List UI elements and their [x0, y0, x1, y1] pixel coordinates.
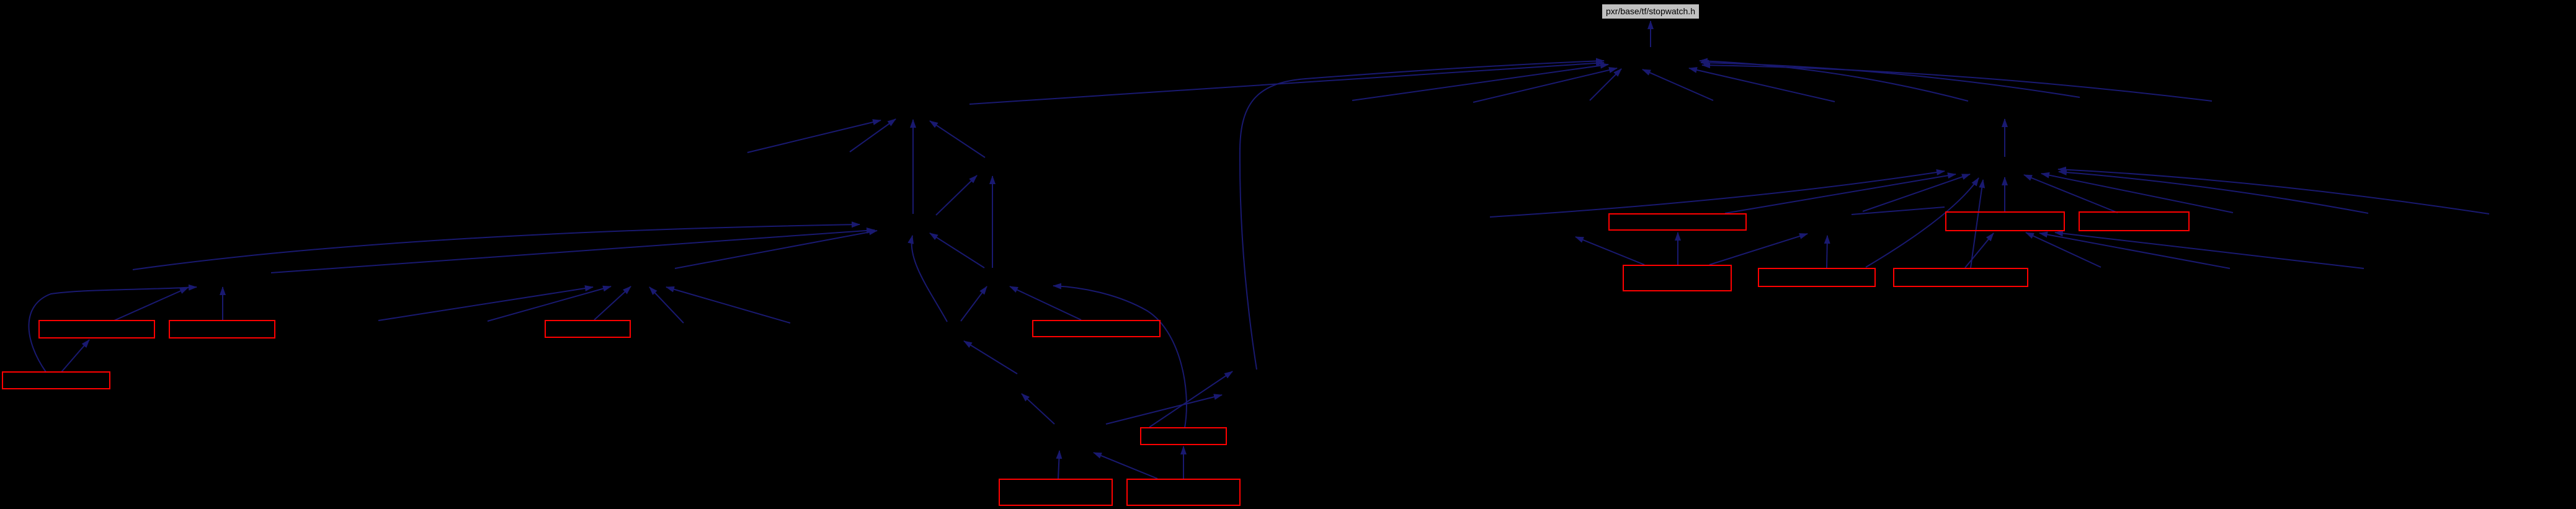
- wire H to N0 (big bend): [1240, 61, 1604, 370]
- wire RB4 to RB1: [1965, 233, 1994, 268]
- wire A3 to N0: [1352, 64, 1608, 100]
- wire T1 to N0: [1701, 63, 2080, 97]
- node L2: [169, 321, 275, 338]
- wire A7 to N0: [1689, 68, 1835, 102]
- node RB1: [1946, 212, 2064, 231]
- wire G to B (arc): [912, 236, 947, 322]
- wire M4 to E: [1094, 453, 1157, 479]
- wire A to N0: [969, 63, 1604, 104]
- wire RB3 to Q2: [1827, 236, 1827, 268]
- wire A4 to N0: [1473, 68, 1617, 102]
- node pxr/base/tf/stopwatch.h: [1602, 4, 1699, 19]
- node P2: [1623, 265, 1731, 291]
- wire J2 to C: [666, 287, 790, 323]
- wire D to A2: [992, 176, 993, 268]
- wire F to G: [964, 341, 1017, 374]
- wire M1 to D: [1010, 286, 1081, 320]
- wire RT to RC1: [2059, 172, 2368, 213]
- node RB4: [1894, 268, 2028, 286]
- wire L2 to L0: [222, 287, 223, 320]
- wire A2 to A: [930, 121, 985, 157]
- wire L1 to L0: [114, 288, 188, 321]
- wire T2 to N0: [1702, 65, 2212, 101]
- wire L0 to B (upper): [133, 224, 860, 270]
- node M3: [999, 479, 1112, 505]
- wire R4 to C: [594, 286, 631, 320]
- wire A2L to A: [747, 120, 881, 153]
- node L3: [2, 372, 110, 389]
- wire RB2 to RC1: [2024, 175, 2118, 213]
- node M2: [1141, 428, 1226, 445]
- node M1: [1033, 321, 1160, 337]
- node L1: [39, 321, 154, 338]
- wire D to B: [930, 233, 984, 268]
- wire M3 to E: [1058, 451, 1059, 479]
- node M4: [1127, 479, 1240, 505]
- node R4: [545, 321, 630, 337]
- wire RB1 to RC1: [2004, 177, 2005, 211]
- wire P2 to P1: [1677, 232, 1678, 265]
- wire Q2 to RC1: [1863, 174, 1970, 211]
- wire A2M to A: [850, 119, 896, 152]
- wire E to H: [1106, 395, 1222, 424]
- wire L3 to L1: [61, 340, 89, 372]
- node RB3: [1758, 268, 1875, 286]
- wire RB4 to RC1: [1971, 180, 1983, 268]
- wire A6 to N0: [1642, 69, 1713, 100]
- wire RC0 to N0: [1700, 61, 1968, 101]
- wire E to F: [1022, 394, 1054, 424]
- wire RS2 to RB1: [2039, 233, 2230, 268]
- wire RS to RC1: [2041, 174, 2233, 213]
- wire RB3 to RC1 (curve): [1866, 178, 1979, 267]
- wire RC1 to RC0: [2004, 119, 2005, 157]
- wire P2 to Q2: [1709, 234, 1807, 265]
- wire RT2 to RB1: [2055, 232, 2364, 268]
- wire B to A2: [936, 175, 977, 215]
- wire P2 to Q1: [1575, 237, 1644, 265]
- wire G to D: [961, 286, 987, 321]
- wire C to B: [675, 231, 877, 268]
- wire A5 to N0: [1590, 69, 1621, 100]
- wire M2 to H: [1149, 371, 1232, 427]
- wire M4 to M2: [1183, 446, 1184, 479]
- wire L4 to C: [378, 287, 593, 321]
- wire L5 to C: [488, 286, 611, 321]
- node RB2: [2079, 212, 2189, 231]
- wire Q1 to RC1 (long sag): [1490, 171, 1945, 217]
- wire N0 to stopwatch: [1650, 21, 1651, 47]
- wire J1 to C: [649, 287, 684, 323]
- wire RS3 to RB1: [2026, 232, 2101, 267]
- wire P1 to RC1: [1725, 174, 1956, 213]
- wire M2 to D (curve): [1053, 286, 1187, 428]
- wire L0 to B (lower): [271, 230, 875, 273]
- wire L3 to L0 (S curve): [29, 287, 197, 372]
- node P1: [1609, 214, 1746, 230]
- wire RX to RC1: [2058, 169, 2489, 214]
- wire B to A: [912, 120, 914, 214]
- wire Q2 stub: [1852, 207, 1945, 215]
- svg-text:pxr/base/tf/stopwatch.h: pxr/base/tf/stopwatch.h: [1606, 6, 1695, 16]
